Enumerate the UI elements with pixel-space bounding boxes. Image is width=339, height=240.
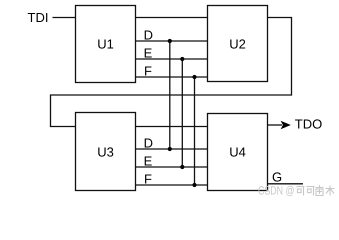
junction dot D bottom <box>168 147 172 151</box>
wire U2 output wrap-around to U3 <box>51 18 292 127</box>
IC U3 <box>76 113 136 191</box>
svg-text:TDI: TDI <box>28 10 49 25</box>
svg-text:U4: U4 <box>229 145 246 160</box>
IC U1 <box>76 6 136 83</box>
glyph nan <box>316 185 324 196</box>
glyph ke 2 <box>307 187 315 196</box>
junction dot E top <box>180 57 184 61</box>
junction dot D top <box>168 39 172 43</box>
wire U3-U4 chain <box>136 126 208 128</box>
watermark CJK glyphs (hand drawn) <box>297 185 335 196</box>
junction dot E bottom <box>180 165 184 169</box>
glyph ke 1 <box>297 187 305 196</box>
wire E bottom <box>136 166 208 168</box>
wire F top <box>136 76 208 78</box>
svg-text:F: F <box>144 172 152 187</box>
svg-text:U3: U3 <box>97 145 114 160</box>
svg-text:U2: U2 <box>229 37 246 52</box>
wire D bottom <box>136 148 208 150</box>
svg-text:D: D <box>144 28 153 43</box>
svg-text:U1: U1 <box>97 36 114 51</box>
IC U2 <box>208 6 268 82</box>
wire bus vertical F <box>194 77 196 185</box>
wire F bottom <box>136 184 208 186</box>
wire U1-U2 chain <box>136 17 208 19</box>
svg-text:TDO: TDO <box>295 117 322 132</box>
svg-text:G: G <box>272 169 282 184</box>
wire E top <box>136 58 208 60</box>
glyph mu <box>326 186 335 196</box>
svg-text:CSDN @: CSDN @ <box>258 183 295 197</box>
junction dot F top <box>192 75 196 79</box>
IC U4 <box>208 114 268 191</box>
wire bus vertical D <box>169 41 171 149</box>
wire G output <box>268 169 304 184</box>
svg-text:F: F <box>144 64 152 79</box>
watermark CSDN <box>258 183 295 197</box>
wire TDO output with arrowhead <box>268 117 323 132</box>
svg-text:E: E <box>144 154 153 169</box>
svg-text:D: D <box>144 136 153 151</box>
svg-text:E: E <box>144 46 153 61</box>
wire TDI lead <box>53 17 76 19</box>
wire bus vertical E <box>181 59 183 167</box>
junction dot F bottom <box>192 183 196 187</box>
wire D top <box>136 40 208 42</box>
